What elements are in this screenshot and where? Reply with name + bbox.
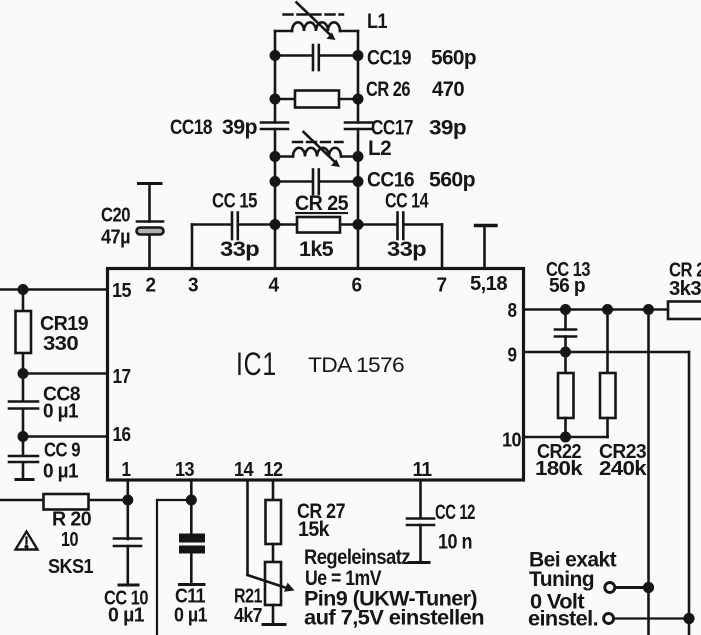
wire pin 4 stub bbox=[274, 225, 277, 269]
svg-text:180k: 180k bbox=[535, 458, 584, 480]
potentiometer R21 bbox=[265, 562, 281, 605]
wire CR19 branch bbox=[22, 290, 25, 480]
svg-text:4k7: 4k7 bbox=[234, 605, 262, 627]
wire pin 2 bbox=[148, 234, 151, 269]
svg-text:CC19: CC19 bbox=[367, 47, 411, 70]
capacitor CC15 bbox=[232, 213, 238, 240]
svg-text:14: 14 bbox=[234, 459, 254, 481]
node pin1 junction bbox=[124, 496, 132, 504]
svg-text:CR 26: CR 26 bbox=[366, 78, 410, 101]
svg-text:12: 12 bbox=[264, 459, 283, 481]
svg-text:470: 470 bbox=[432, 78, 464, 101]
svg-text:Tuning: Tuning bbox=[529, 568, 594, 591]
capacitor C20 bbox=[137, 185, 164, 235]
wire pin 6 stub bbox=[357, 225, 360, 269]
wire pin 16 bbox=[23, 435, 108, 438]
resistor CR25 bbox=[297, 217, 340, 233]
wire pin 13 bbox=[190, 480, 193, 534]
terminal bar above pin 5,18 bbox=[476, 224, 497, 227]
svg-text:CC 12: CC 12 bbox=[435, 501, 475, 524]
svg-text:5,18: 5,18 bbox=[470, 273, 507, 295]
wire terminal 2 bbox=[614, 617, 689, 619]
node L2 left bbox=[271, 152, 279, 160]
svg-text:CC 15: CC 15 bbox=[212, 190, 258, 213]
terminal bar below CC12 bbox=[409, 561, 429, 564]
L2 tuning core dashes bbox=[293, 141, 343, 143]
svg-text:16: 16 bbox=[113, 424, 131, 446]
node pin15 junction bbox=[19, 285, 27, 293]
wiper arrowhead R21 bbox=[284, 583, 295, 592]
svg-text:CR19: CR19 bbox=[40, 313, 88, 335]
terminal circle 1 bbox=[605, 583, 615, 593]
svg-text:3k3: 3k3 bbox=[669, 278, 701, 300]
svg-text:33p: 33p bbox=[220, 238, 259, 261]
capacitor CC16 bbox=[275, 170, 358, 195]
IC IC1 TDA 1576 bbox=[108, 269, 524, 481]
node pin8 a bbox=[561, 305, 569, 313]
svg-text:CC 9: CC 9 bbox=[44, 440, 80, 462]
svg-text:4: 4 bbox=[269, 275, 280, 297]
capacitor CC8 bbox=[9, 402, 38, 409]
node tuning terminal 2 junction bbox=[685, 614, 694, 623]
node CC19 left bbox=[271, 51, 279, 59]
svg-text:einstel.: einstel. bbox=[528, 608, 598, 631]
node L2 right bbox=[354, 152, 362, 160]
terminal bar above C20 bbox=[139, 182, 162, 185]
wire from pin13 to bottom left bbox=[157, 500, 191, 635]
svg-text:56 p: 56 p bbox=[549, 275, 585, 297]
terminal bar below CC9 bbox=[16, 478, 33, 481]
resistor CR22 bbox=[558, 352, 574, 437]
wire pin 12 bbox=[272, 480, 275, 500]
warning triangle SKS1 bbox=[16, 532, 38, 550]
wire R21 lower bbox=[272, 605, 275, 625]
node CR26 right bbox=[354, 95, 362, 103]
node CC16 right bbox=[354, 177, 362, 185]
svg-text:8: 8 bbox=[508, 300, 517, 322]
svg-text:13: 13 bbox=[175, 459, 194, 481]
capacitor CC10 bbox=[114, 539, 141, 586]
wire pin 8 bbox=[524, 308, 669, 311]
wire tank right rail bbox=[357, 31, 360, 225]
svg-text:CC 14: CC 14 bbox=[385, 190, 429, 213]
svg-text:47µ: 47µ bbox=[101, 227, 130, 249]
inductor L2 bbox=[275, 148, 358, 157]
svg-text:TDA 1576: TDA 1576 bbox=[308, 354, 404, 377]
svg-text:33p: 33p bbox=[387, 238, 426, 261]
svg-text:560p: 560p bbox=[429, 169, 475, 192]
svg-text:7: 7 bbox=[437, 275, 447, 297]
wire pin 5,18 bbox=[483, 226, 486, 269]
L2 tuning arrow bbox=[304, 132, 341, 167]
node pin4 top junction bbox=[271, 220, 279, 228]
wire C11 lower bbox=[190, 554, 193, 585]
wire pin 14 wiper bbox=[248, 480, 289, 589]
svg-text:39p: 39p bbox=[222, 116, 257, 139]
capacitor C11 bbox=[179, 534, 205, 554]
svg-text:1k5: 1k5 bbox=[299, 238, 334, 261]
node CC19 right bbox=[354, 51, 362, 59]
resistor CR27 bbox=[266, 500, 282, 544]
svg-text:10: 10 bbox=[61, 529, 78, 551]
capacitor CC17 bbox=[345, 123, 372, 130]
svg-text:15: 15 bbox=[112, 280, 131, 302]
svg-text:15k: 15k bbox=[298, 518, 330, 541]
wire pin 9 bbox=[524, 352, 690, 635]
resistor CR23 bbox=[600, 310, 616, 438]
svg-text:560p: 560p bbox=[431, 47, 476, 70]
svg-text:R 20: R 20 bbox=[52, 509, 91, 531]
terminal bar below CC10 bbox=[119, 584, 138, 587]
node pin8 b bbox=[603, 305, 611, 313]
wire pin 10 bbox=[524, 436, 608, 439]
wire top row pin3 to pin7 bbox=[192, 223, 442, 226]
wire tank left rail bbox=[274, 31, 277, 225]
svg-text:0 µ1: 0 µ1 bbox=[43, 461, 78, 483]
L1 tuning arrow bbox=[297, 3, 336, 41]
svg-text:10 n: 10 n bbox=[438, 531, 472, 554]
capacitor CC19 bbox=[275, 45, 358, 70]
svg-text:1: 1 bbox=[122, 459, 131, 481]
node pin17 junction bbox=[19, 369, 27, 377]
svg-text:auf 7,5V einstellen: auf 7,5V einstellen bbox=[304, 607, 484, 630]
terminal bar below C11 bbox=[180, 583, 205, 586]
wire terminal 1 bbox=[616, 586, 649, 589]
capacitor CC13 bbox=[555, 310, 576, 353]
capacitor CC14 bbox=[398, 213, 404, 240]
wire vertical from pin8 node bbox=[647, 310, 650, 635]
node pin16 junction bbox=[19, 432, 27, 440]
svg-text:C20: C20 bbox=[101, 205, 130, 227]
wire pin 11 bbox=[419, 480, 422, 518]
svg-text:L2: L2 bbox=[368, 137, 391, 160]
wire pin 15 bbox=[0, 288, 108, 291]
L1 tuning core dashes bbox=[284, 13, 344, 15]
node pin6 top junction bbox=[354, 220, 362, 228]
wire R20 bbox=[0, 499, 128, 502]
terminal circle 2 bbox=[604, 614, 614, 624]
resistor R20 bbox=[44, 494, 89, 510]
resistor 3k3 bbox=[668, 302, 701, 320]
node pin8 c bbox=[644, 305, 652, 313]
svg-text:CR 25: CR 25 bbox=[295, 192, 349, 215]
svg-text:CC16: CC16 bbox=[367, 169, 414, 192]
svg-text:3: 3 bbox=[188, 275, 198, 297]
wire pin 17 bbox=[23, 372, 108, 375]
inductor L1 bbox=[275, 22, 358, 31]
svg-text:39p: 39p bbox=[429, 117, 466, 140]
resistor CR26 bbox=[275, 91, 358, 108]
svg-text:0 µ1: 0 µ1 bbox=[108, 605, 144, 627]
svg-text:L1: L1 bbox=[367, 10, 388, 33]
capacitor CC9 bbox=[9, 456, 38, 462]
svg-text:0 µ1: 0 µ1 bbox=[174, 605, 207, 627]
wire CR27 to R21 bbox=[272, 544, 275, 562]
terminal bar below R21 bbox=[263, 623, 285, 626]
svg-text:9: 9 bbox=[508, 345, 517, 367]
svg-text:2: 2 bbox=[146, 275, 156, 297]
svg-text:6: 6 bbox=[352, 275, 362, 297]
svg-text:IC1: IC1 bbox=[236, 346, 277, 382]
wire pin 3 stub bbox=[191, 225, 194, 269]
svg-text:SKS1: SKS1 bbox=[48, 556, 93, 578]
node pin13 junction bbox=[187, 496, 195, 504]
svg-text:330: 330 bbox=[43, 333, 79, 355]
wire pin 7 stub bbox=[441, 225, 444, 269]
svg-text:240k: 240k bbox=[599, 458, 648, 480]
resistor CR19 bbox=[16, 311, 32, 353]
node CR26 left bbox=[271, 95, 279, 103]
svg-text:Regeleinsatz: Regeleinsatz bbox=[304, 546, 410, 569]
capacitor CC18 bbox=[261, 123, 288, 130]
node CC16 left bbox=[271, 177, 279, 185]
node tuning terminal 1 junction bbox=[644, 583, 653, 592]
svg-text:CC18: CC18 bbox=[170, 116, 213, 139]
svg-text:11: 11 bbox=[413, 459, 432, 481]
wire pin 1 bbox=[127, 480, 130, 539]
node pin9 junction bbox=[561, 348, 569, 356]
node pin10 junction bbox=[561, 433, 569, 441]
svg-text:17: 17 bbox=[113, 366, 131, 388]
svg-text:10: 10 bbox=[502, 430, 521, 452]
svg-text:0 µ1: 0 µ1 bbox=[43, 401, 78, 423]
capacitor CC12 bbox=[407, 519, 434, 563]
